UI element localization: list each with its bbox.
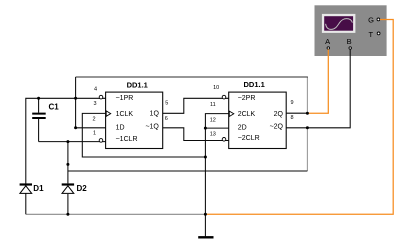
svg-text:11: 11	[210, 102, 216, 108]
svg-text:5: 5	[165, 101, 168, 107]
svg-text:2D: 2D	[238, 125, 247, 132]
svg-text:1CLK: 1CLK	[116, 111, 134, 118]
svg-text:1Q: 1Q	[150, 111, 160, 118]
svg-text:8: 8	[290, 115, 293, 121]
svg-text:12: 12	[210, 118, 216, 124]
svg-text:1D: 1D	[116, 125, 125, 132]
svg-text:4: 4	[94, 86, 97, 92]
svg-text:DD1.1: DD1.1	[127, 80, 148, 89]
svg-text:~1PR: ~1PR	[116, 95, 134, 102]
svg-text:~1Q: ~1Q	[145, 123, 159, 130]
svg-text:6: 6	[165, 116, 168, 122]
svg-text:1: 1	[93, 130, 96, 136]
svg-text:~2PR: ~2PR	[238, 95, 256, 102]
svg-text:T: T	[369, 30, 374, 39]
svg-text:10: 10	[213, 85, 219, 91]
svg-text:DD1.1: DD1.1	[244, 80, 265, 89]
svg-text:G: G	[368, 16, 374, 25]
svg-text:D2: D2	[77, 184, 88, 193]
svg-text:D1: D1	[33, 184, 44, 193]
svg-text:B: B	[347, 37, 352, 46]
svg-text:2CLK: 2CLK	[238, 111, 256, 118]
svg-text:~1CLR: ~1CLR	[116, 136, 138, 143]
svg-text:~2CLR: ~2CLR	[238, 135, 260, 142]
svg-text:13: 13	[210, 132, 216, 138]
svg-text:3: 3	[93, 101, 96, 107]
svg-text:9: 9	[290, 100, 293, 106]
svg-text:A: A	[325, 37, 330, 46]
svg-text:2Q: 2Q	[274, 111, 284, 118]
svg-text:~2Q: ~2Q	[270, 124, 284, 131]
svg-text:C1: C1	[49, 102, 60, 111]
svg-text:2: 2	[92, 117, 95, 123]
